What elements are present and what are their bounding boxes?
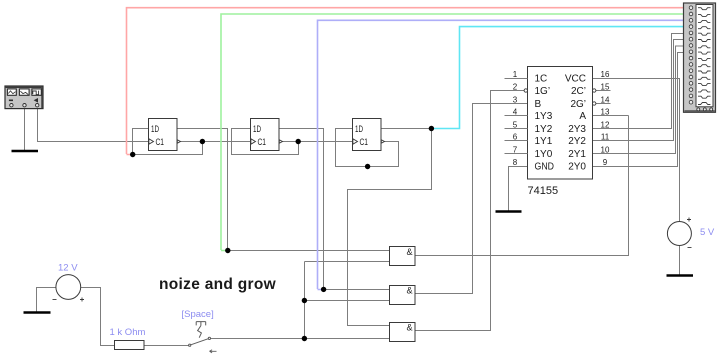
wire: gate2 output to 74155 pin 3	[416, 104, 528, 294]
wire: 12V source to resistor	[81, 288, 115, 346]
svg-text:1D: 1D	[253, 124, 261, 134]
svg-text:6: 6	[513, 133, 518, 142]
wire: FF1 Q to FF2 clock	[178, 141, 251, 143]
svg-text:C1: C1	[156, 137, 165, 147]
svg-text:13: 13	[601, 108, 610, 117]
wire: 12V source left lead to ground	[37, 288, 57, 312]
wire: FF3 Q-top to junction	[381, 128, 432, 130]
wire: FF1 Q-top to AND bus	[178, 129, 228, 251]
svg-text:74155: 74155	[528, 185, 559, 197]
D flip-flop U2	[251, 119, 283, 151]
wire: FF2 feedback loop	[232, 129, 299, 155]
svg-text:&: &	[407, 286, 413, 296]
node: FF1 Q / green wire / gate1 junction	[225, 248, 230, 253]
wire: 5V source to ground	[679, 246, 681, 275]
ground (74155 GND)	[496, 210, 522, 212]
wire: 74155 pin 12 to header pin 5	[593, 34, 684, 129]
svg-text:8: 8	[513, 158, 518, 167]
AND gate U4A	[390, 247, 416, 266]
wire green: FF1 output node to header pin 2	[221, 14, 684, 251]
svg-text:3: 3	[513, 96, 518, 105]
pin numbers right	[601, 70, 610, 167]
ground (5V source)	[667, 274, 694, 277]
svg-text:1Y3: 1Y3	[535, 111, 553, 122]
svg-text:12 V: 12 V	[58, 263, 78, 274]
pin labels inside	[535, 74, 555, 173]
svg-text:1D: 1D	[151, 124, 159, 134]
wire: FF2 Q-top down to gate2	[280, 129, 324, 290]
wire: clock bus vertical	[304, 262, 306, 339]
svg-text:2C’: 2C’	[571, 86, 586, 97]
svg-text:&: &	[407, 323, 413, 333]
svg-text:15: 15	[601, 83, 610, 92]
svg-text:12: 12	[601, 121, 610, 130]
D flip-flop U3	[353, 119, 385, 151]
pin stubs right (15,14)	[596, 91, 611, 104]
svg-text:5: 5	[513, 121, 518, 130]
svg-text:1G’: 1G’	[535, 86, 551, 97]
wire: gate1 top input from FF1 node	[228, 250, 390, 252]
wire: FF3 feedback loop	[336, 129, 399, 167]
resistor R1 1k	[110, 327, 146, 350]
svg-text:2: 2	[513, 83, 518, 92]
svg-text:B: B	[535, 99, 542, 110]
wire: 74155 pin 10 to header pin 7	[593, 46, 684, 154]
wire: FF2 Q to FF3 clock	[280, 141, 353, 143]
wire: switch to gate3 bottom input	[211, 338, 390, 340]
svg-text:1C: 1C	[535, 74, 548, 85]
node: clock bus to gate2 junction	[302, 298, 307, 303]
svg-text:C1: C1	[360, 137, 369, 147]
svg-text:11: 11	[601, 133, 610, 142]
svg-text:1: 1	[513, 70, 518, 79]
wire: FF3 node down to gate3 input	[348, 129, 432, 326]
svg-text:1D: 1D	[355, 124, 363, 134]
svg-text:1 k Ohm: 1 k Ohm	[110, 327, 146, 338]
wire: gate1 output to 74155 pin 13	[416, 116, 629, 256]
svg-text:&: &	[407, 247, 413, 257]
bubble pin 15	[593, 89, 596, 92]
wire: gate3 output to 74155 pin 2	[416, 91, 525, 331]
svg-text:10: 10	[601, 146, 610, 155]
wire: gate2 bottom input	[305, 300, 390, 302]
svg-text:1Y2: 1Y2	[535, 124, 553, 135]
wire red: FF1 node to header pin 1	[127, 8, 684, 155]
wire: gate2 top input from FF2 node	[324, 289, 390, 291]
node: FF2 Q / purple wire / gate2 junction	[321, 287, 326, 292]
pin stubs left (1,4,5,6,7)	[505, 79, 528, 154]
node: FF3 Q / cyan wire junction	[429, 126, 434, 131]
wire cyan: FF3 output node to header pin 4	[432, 27, 684, 129]
voltage source V2 12V	[53, 263, 85, 302]
svg-text:7: 7	[513, 146, 518, 155]
wire: 74155 GND pin to ground	[509, 167, 528, 211]
pin numbers left	[513, 70, 518, 167]
node: FF1 Q output junction	[200, 139, 205, 144]
svg-text:C1: C1	[258, 137, 267, 147]
wire: 74155 pin 9 to header pin 8	[593, 53, 684, 167]
svg-text:2Y3: 2Y3	[568, 124, 586, 135]
ground (function generator)	[12, 150, 39, 153]
D flip-flop U1	[149, 119, 181, 151]
svg-text:noize and grow: noize and grow	[159, 276, 277, 293]
wire: function generator to FF1 clock	[38, 109, 149, 142]
svg-text:A: A	[579, 111, 586, 122]
svg-text:16: 16	[601, 70, 610, 79]
svg-text:2Y0: 2Y0	[568, 162, 586, 173]
function generator XFG1	[5, 86, 43, 109]
wire purple: FF2 output node to header pin 3	[318, 20, 684, 289]
wire: 74155 VCC pin 16 to 5V source	[593, 79, 680, 222]
node: FF3 feedback corner junction	[365, 164, 370, 169]
svg-text:14: 14	[601, 96, 610, 105]
logic indicator header X1	[684, 3, 716, 112]
node: FF2 Q output junction	[296, 139, 301, 144]
svg-text:VCC: VCC	[565, 74, 586, 85]
svg-text:2Y1: 2Y1	[568, 149, 586, 160]
bubble pin 14	[593, 102, 596, 105]
svg-text:2Y2: 2Y2	[568, 136, 586, 147]
svg-text:1Y1: 1Y1	[535, 136, 553, 147]
wire: resistor to switch	[144, 345, 189, 347]
bubble pin 2	[524, 89, 527, 92]
wire: FF1 feedback loop	[133, 129, 203, 155]
switch J1 [Space]	[189, 322, 217, 353]
svg-text:5 V: 5 V	[700, 227, 715, 238]
wire: 74155 pin 13 stub	[593, 115, 629, 117]
AND gate U4B	[390, 286, 416, 305]
AND gate U4C	[390, 323, 416, 342]
wire: gate1 bottom input	[305, 261, 390, 263]
IC 74155 demultiplexer	[505, 67, 611, 198]
svg-text:4: 4	[513, 108, 518, 117]
svg-text:1Y0: 1Y0	[535, 149, 553, 160]
ground (12V source)	[24, 311, 51, 314]
svg-text:9: 9	[603, 158, 608, 167]
wire: FG ground lead	[24, 109, 26, 151]
voltage source V1 5V	[667, 218, 715, 248]
svg-text:[Space]: [Space]	[182, 309, 214, 320]
wire: 74155 pin 11 to header pin 6	[593, 40, 684, 141]
svg-text:2G’: 2G’	[570, 99, 586, 110]
svg-text:GND: GND	[535, 162, 555, 173]
node: clock bus to switch wire junction	[302, 336, 307, 341]
node: FF1 D feedback / red wire junction	[130, 152, 135, 157]
